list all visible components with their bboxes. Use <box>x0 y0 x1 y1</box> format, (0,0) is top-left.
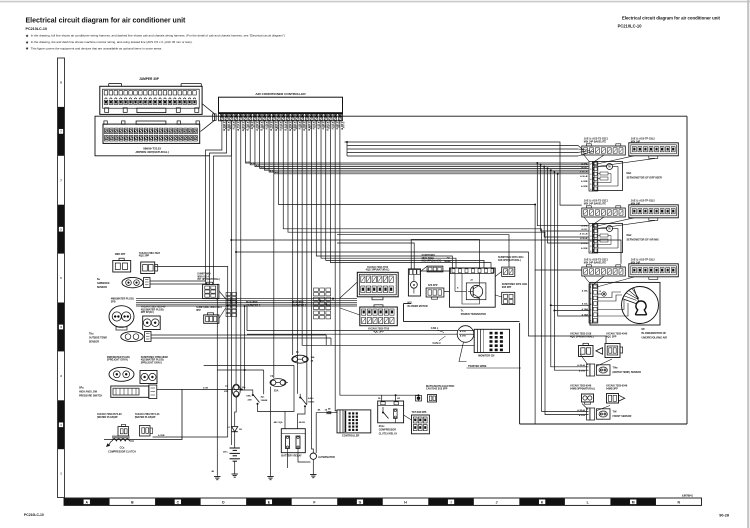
svg-text:3Z3 3PP: 3Z3 3PP <box>428 284 438 287</box>
wire run to 0870-4011 connector <box>337 235 509 267</box>
svg-text:H: H <box>404 501 407 505</box>
svg-text:4MB 3PP: 4MB 3PP <box>115 253 126 256</box>
svg-text:6: 6 <box>590 315 592 317</box>
svg-text:CLUTCH RELAY: CLUTCH RELAY <box>379 432 398 435</box>
svg-text:A 3B: A 3B <box>203 386 208 389</box>
fan unit box <box>590 282 660 325</box>
leader water temp <box>580 354 588 365</box>
wire pressure switch junction vertical <box>244 306 246 390</box>
svg-text:★: ★ <box>25 47 29 51</box>
svg-text:A 3PA: A 3PA <box>581 225 588 228</box>
fuse F1 <box>292 355 309 363</box>
connector 08909-T2133 30P <box>103 121 200 143</box>
module connector B <box>629 143 679 159</box>
wire fuse F2 to diode <box>235 397 237 420</box>
svg-text:F3: F3 <box>271 376 274 378</box>
svg-text:90-28: 90-28 <box>719 514 729 518</box>
fan motor circle <box>622 287 659 324</box>
alternator <box>310 453 316 459</box>
svg-text:G: G <box>359 501 362 505</box>
svg-text:A 3RxB: A 3RxB <box>577 409 585 412</box>
svg-text:SENSOR: SENSOR <box>97 286 107 289</box>
servomotor inner box <box>594 224 623 253</box>
svg-text:3X8 4PP(NATURAL): 3X8 4PP(NATURAL) <box>498 259 521 262</box>
svg-text:COMPRESSOR: COMPRESSOR <box>379 429 397 432</box>
svg-text:18A: 18A <box>311 356 315 359</box>
svg-text:Ma2: Ma2 <box>627 234 632 237</box>
module connector B <box>629 205 679 221</box>
svg-text:SENSOR: SENSOR <box>89 341 99 344</box>
svg-text:HIGH AND LOW: HIGH AND LOW <box>79 391 98 394</box>
servomotor pin block <box>589 224 598 254</box>
servomotor pin block <box>589 162 598 192</box>
svg-text:6: 6 <box>590 189 592 191</box>
svg-text:N: N <box>678 501 681 505</box>
servomotor symbol <box>607 164 613 170</box>
svg-text:A 5TB: A 5TB <box>460 335 466 338</box>
svg-text:4B.3M: 4B.3M <box>299 421 305 424</box>
sumitomo 0870-4021 connector <box>502 292 515 304</box>
svg-text:ALTERNATOR: ALTERNATOR <box>318 456 335 459</box>
svg-text:0.5 3BL: 0.5 3BL <box>248 122 250 130</box>
svg-text:AIR CONDITIONER CONTROLLER: AIR CONDITIONER CONTROLLER <box>255 92 306 96</box>
svg-text:4B: 4B <box>328 408 331 411</box>
wire ambience to clutch junction column <box>155 267 228 438</box>
svg-text:SERVOMOTOR OF DIFFUSER: SERVOMOTOR OF DIFFUSER <box>627 177 663 180</box>
svg-text:B: B <box>131 501 134 505</box>
leader lines connector to pin block <box>584 155 590 162</box>
controller pin strip <box>219 114 343 121</box>
alternator wires <box>305 461 311 463</box>
svg-text:74M4B: 74M4B <box>261 399 268 402</box>
wire run to controller box <box>335 121 337 411</box>
wire left vertical bundle to bottom components <box>216 284 218 475</box>
outside temp sensor connector A <box>109 306 134 330</box>
inline connector on alternator wire <box>327 411 331 414</box>
leader lines inline connectors to junction <box>219 291 226 299</box>
svg-text:A 3AB: A 3AB <box>582 308 589 311</box>
svg-text:HARNESS 1: HARNESS 1 <box>292 305 307 308</box>
leader 4021 <box>495 295 502 297</box>
svg-text:MIX 14P BAKELITE: MIX 14P BAKELITE <box>584 202 607 205</box>
svg-text:F: F <box>313 501 315 505</box>
cab boundary box outline <box>404 116 688 424</box>
svg-text:CAN L: CAN L <box>431 327 439 330</box>
svg-text:2: 2 <box>590 293 592 295</box>
battery relay ground wire <box>287 453 289 468</box>
leader frost <box>582 404 588 410</box>
power transistor symbol <box>455 273 486 304</box>
svg-text:THa: THa <box>89 333 94 336</box>
svg-text:3X8 3PP: 3X8 3PP <box>502 286 512 289</box>
svg-text:J: J <box>496 501 498 505</box>
svg-text:D1: D1 <box>227 427 231 429</box>
svg-text:24M: 24M <box>247 399 251 402</box>
svg-text:PRESSURE SWITCH: PRESSURE SWITCH <box>79 395 103 398</box>
svg-text:(WATER PLGB)3P: (WATER PLGB)3P <box>135 416 156 419</box>
svg-text:78? 3PP(NATURAL): 78? 3PP(NATURAL) <box>197 278 220 281</box>
svg-text:E: E <box>457 288 459 290</box>
wire single runs to sensors <box>279 121 582 270</box>
svg-text:Mf: Mf <box>642 328 645 331</box>
svg-text:0.5 3GL: 0.5 3GL <box>238 122 240 130</box>
svg-text:D: D <box>222 501 225 505</box>
svg-text:04MB 3PP: 04MB 3PP <box>606 387 618 390</box>
servomotor symbol <box>607 226 613 232</box>
svg-text:0.5 3FB: 0.5 3FB <box>262 122 264 130</box>
water temp sensor plug pair <box>579 343 623 357</box>
svg-text:MACHINE: MACHINE <box>292 301 304 304</box>
wire long run y240 to fan connector <box>230 121 232 445</box>
svg-text:4BV 3QA: 4BV 3QA <box>274 421 283 424</box>
svg-text:3PP: 3PP <box>196 309 201 312</box>
fan aux symbols <box>602 292 606 296</box>
svg-text:3PP 3P(4C): 3PP 3P(4C) <box>141 311 154 314</box>
switch S2 <box>299 394 315 410</box>
svg-text:A 3AB: A 3AB <box>582 313 589 316</box>
svg-text:OUTSIDE TEMP.: OUTSIDE TEMP. <box>89 337 108 340</box>
svg-text:0.5 3GR: 0.5 3GR <box>243 122 245 130</box>
ground left column <box>216 475 218 477</box>
TKT connector <box>412 415 430 434</box>
ambience sensor body <box>122 277 150 287</box>
svg-text:A3Bb: A3Bb <box>308 397 314 400</box>
ambience sensor connector B <box>141 262 158 274</box>
svg-text:4B.: 4B. <box>318 409 322 412</box>
air conditioner controller U1 <box>219 97 343 113</box>
svg-text:0.5 3W: 0.5 3W <box>342 122 344 129</box>
svg-text:74M4B: 74M4B <box>444 260 451 263</box>
twisted wire circle <box>457 326 474 343</box>
svg-text:3B: 3B <box>239 429 242 431</box>
pressure switch connector A <box>109 367 134 381</box>
svg-text:BLOWER MOTOR: BLOWER MOTOR <box>408 305 428 308</box>
svg-text:A 3RB: A 3RB <box>581 185 588 188</box>
svg-text:3PB: 3PB <box>111 300 116 303</box>
svg-text:A 3PA: A 3PA <box>581 163 588 166</box>
small connector above TKT <box>416 396 422 402</box>
sumitomo 0870-4011 connector <box>502 267 515 276</box>
svg-text:4: 4 <box>590 303 592 306</box>
matsushita connector <box>428 395 437 403</box>
svg-text:0.5 5TB: 0.5 5TB <box>285 122 287 130</box>
svg-text:FROST SENSOR: FROST SENSOR <box>613 415 632 418</box>
svg-text:0.5 3B: 0.5 3B <box>323 122 325 129</box>
harness inline connector upper <box>203 282 219 298</box>
svg-text:1: 1 <box>590 287 592 289</box>
junction pin cluster left <box>226 293 237 317</box>
svg-text:7: 7 <box>590 321 592 323</box>
svg-text:CONTROLLER: CONTROLLER <box>342 435 360 438</box>
machine connector lower <box>360 305 398 326</box>
svg-text:Electrical circuit diagram for: Electrical circuit diagram for air condi… <box>26 18 187 25</box>
svg-text:COMPRESSOR CLUTCH: COMPRESSOR CLUTCH <box>108 450 136 453</box>
svg-text:MACHINE: MACHINE <box>246 301 258 304</box>
svg-text:A 5TA: A 5TA <box>460 330 466 333</box>
svg-text:(WATER PLGB)3P: (WATER PLGB)3P <box>97 416 118 419</box>
svg-text:4QL: 4QL <box>446 256 451 259</box>
svg-text:PC210LC-10: PC210LC-10 <box>26 27 48 31</box>
svg-text:CAN H: CAN H <box>433 342 441 345</box>
svg-text:4QG 3PP(NATURAL): 4QG 3PP(NATURAL) <box>366 269 390 272</box>
fuse F3 <box>270 379 286 387</box>
battery relay box <box>281 429 305 453</box>
wire verticals to lower right modules <box>536 162 589 370</box>
svg-text:L: L <box>587 501 589 505</box>
svg-text:AMBIENCE: AMBIENCE <box>97 282 110 285</box>
svg-text:1: 1 <box>590 164 592 166</box>
svg-text:5: 5 <box>60 276 62 280</box>
svg-text:BLOWERMOTOR OF: BLOWERMOTOR OF <box>642 332 667 335</box>
wire run to clutch relay <box>340 121 382 401</box>
svg-text:UNE/REVOLVING AIR: UNE/REVOLVING AIR <box>642 336 668 339</box>
svg-text:A 3RB: A 3RB <box>581 180 588 183</box>
svg-text:04MB 3PP(NATURAL): 04MB 3PP(NATURAL) <box>570 387 595 390</box>
water temp pin block <box>587 364 611 376</box>
svg-text:TWISTED WIRE: TWISTED WIRE <box>468 365 487 368</box>
svg-text:E5A: E5A <box>274 389 279 392</box>
svg-text:SERVOMOTOR OF AIR MIX: SERVOMOTOR OF AIR MIX <box>627 239 660 242</box>
fan keyhole symbol <box>636 301 647 315</box>
diode D1 <box>227 420 242 448</box>
leader 4011 <box>495 272 502 277</box>
svg-text:THw: THw <box>613 367 618 370</box>
svg-text:R1xx: R1xx <box>379 425 385 428</box>
svg-text:5B: 5B <box>378 398 381 400</box>
module connector A <box>582 206 626 217</box>
svg-text:3ZB: 3ZB <box>224 391 229 393</box>
svg-text:4: 4 <box>590 240 592 243</box>
svg-text:★: ★ <box>25 34 29 38</box>
svg-text:Tr.: Tr. <box>461 309 464 312</box>
svg-text:F2: F2 <box>225 386 228 388</box>
svg-text:3X3 3PP(BLACK): 3X3 3PP(BLACK) <box>422 260 442 263</box>
outside temp sensor connector B <box>143 316 161 330</box>
compressor clutch connector A <box>118 427 129 437</box>
svg-text:CAV/7042 3X3 3PP: CAV/7042 3X3 3PP <box>426 388 448 391</box>
svg-text:0.5 5E: 0.5 5E <box>252 122 254 129</box>
svg-text:0.5 3RB: 0.5 3RB <box>295 122 297 130</box>
wires blower to transistor <box>421 270 450 272</box>
svg-text:4QG 3PP: 4QG 3PP <box>606 335 617 338</box>
wire drop to switch S1 <box>241 121 253 392</box>
module connector A <box>582 144 626 155</box>
svg-text:Ma1: Ma1 <box>627 172 632 175</box>
wire drops center going down <box>273 121 275 378</box>
pressure switch body <box>111 385 157 399</box>
outside temp wires <box>151 334 326 336</box>
leader relay to TKT connector <box>404 415 412 420</box>
module connector A <box>582 265 626 276</box>
svg-text:M: M <box>632 501 635 505</box>
svg-text:B: B <box>600 291 602 293</box>
blower motor unit <box>408 269 420 296</box>
module connector B <box>629 264 679 280</box>
controller pin wire labels <box>222 122 344 132</box>
svg-text:0.5 3PB: 0.5 3PB <box>309 122 311 130</box>
svg-text:M: M <box>609 228 611 231</box>
svg-text:BATTERY RELAY: BATTERY RELAY <box>281 455 302 458</box>
svg-text:1: 1 <box>60 472 62 476</box>
controller box <box>337 410 371 433</box>
twisted wire leader <box>459 342 467 362</box>
svg-text:+B: +B <box>470 280 473 282</box>
svg-text:75A4b: 75A4b <box>308 401 315 404</box>
wire upper bus to module 1 connector <box>345 142 582 205</box>
cab harness boundary line <box>210 115 687 117</box>
svg-text:In the drawing, dot and dash l: In the drawing, dot and dash line shows … <box>31 40 193 44</box>
frost sensor plug pair <box>582 394 625 405</box>
svg-text:A 3RB: A 3RB <box>581 247 588 250</box>
machine connector upper <box>357 272 398 300</box>
svg-text:3: 3 <box>590 174 592 176</box>
leader junction to machine connectors <box>340 282 357 298</box>
svg-text:A 3RB: A 3RB <box>581 242 588 245</box>
svg-text:A 3RxB: A 3RxB <box>577 364 585 367</box>
svg-text:JUMPER 30P: JUMPER 30P <box>139 77 160 81</box>
machine harness wire bundle <box>136 298 357 306</box>
svg-text:8: 8 <box>60 81 62 85</box>
fuse F2 <box>232 384 240 397</box>
left border ruler <box>58 58 65 498</box>
frost pin block <box>587 408 611 420</box>
svg-text:2: 2 <box>590 231 592 233</box>
svg-text:2: 2 <box>590 169 592 171</box>
svg-text:CCa: CCa <box>120 447 125 450</box>
compressor clutch box <box>104 389 182 440</box>
svg-text:A 3PA: A 3PA <box>579 369 586 372</box>
svg-text:3: 3 <box>60 374 62 378</box>
svg-text:0.5 5B: 0.5 5B <box>299 122 301 129</box>
pressure switch connector B <box>140 371 157 384</box>
harness inline connector lower <box>204 313 219 324</box>
svg-text:A 65C: A 65C <box>581 228 588 231</box>
wire bus bundle controller to servo modules <box>246 121 589 174</box>
compressor clutch connector B <box>140 426 151 437</box>
svg-text:0.5 5D: 0.5 5D <box>266 122 268 129</box>
ground under battery <box>232 473 238 475</box>
wire fuse F3 drop <box>270 387 272 475</box>
switch S1 <box>246 391 267 407</box>
wire runs to blower motor connector <box>411 240 479 269</box>
svg-text:18M+: 18M+ <box>246 396 252 398</box>
svg-text:M?L: M?L <box>408 301 413 304</box>
svg-text:4B: 4B <box>211 470 214 473</box>
svg-text:POWER TRANSISTOR: POWER TRANSISTOR <box>461 313 486 316</box>
svg-text:HARNESS 2: HARNESS 2 <box>246 305 261 308</box>
svg-text:5: 5 <box>590 309 592 311</box>
svg-text:4QL: 4QL <box>261 396 266 399</box>
svg-text:I: I <box>451 501 452 505</box>
servomotor inner box <box>594 162 623 191</box>
svg-text:Sa: Sa <box>97 278 101 281</box>
svg-text:MIX 14P BAKELITE: MIX 14P BAKELITE <box>584 261 607 264</box>
svg-text:1: 1 <box>590 226 592 228</box>
ground under fuse F3 column <box>270 475 272 477</box>
svg-text:4: 4 <box>590 178 592 181</box>
controller left connector wedge <box>201 104 215 132</box>
outside temp sensor body <box>121 332 151 342</box>
battery <box>223 448 240 474</box>
fan intake sector hatched <box>623 288 640 305</box>
svg-text:9JM78941: 9JM78941 <box>682 494 694 497</box>
svg-text:A 3G+B: A 3G+B <box>580 171 588 174</box>
svg-text:(WATER TEMP.) SENSOR: (WATER TEMP.) SENSOR <box>613 371 642 374</box>
svg-text:★: ★ <box>25 40 29 44</box>
svg-text:M: M <box>609 166 611 169</box>
svg-text:6: 6 <box>590 251 592 253</box>
svg-text:A 3AL: A 3AL <box>582 303 589 306</box>
compressor clutch coil <box>106 436 134 447</box>
svg-text:MIX 14P BAKELITE: MIX 14P BAKELITE <box>584 140 607 143</box>
svg-text:4QG 3PP: 4QG 3PP <box>373 330 384 333</box>
svg-text:THf: THf <box>613 411 617 414</box>
wire fuse F2 feed <box>235 252 237 384</box>
svg-text:TKT.3X8 6PB: TKT.3X8 6PB <box>412 411 427 414</box>
svg-text:0.5 5C: 0.5 5C <box>233 122 235 129</box>
wire switches to battery relay <box>258 408 286 429</box>
svg-text:In the drawing, full line show: In the drawing, full line shows air cond… <box>31 34 285 38</box>
svg-text:A 3G+B: A 3G+B <box>580 233 588 236</box>
pressure switch wires <box>157 389 242 391</box>
3Z3 connector <box>426 288 444 299</box>
svg-text:5: 5 <box>590 246 592 248</box>
svg-text:SPa: SPa <box>79 387 84 390</box>
svg-text:0.5 3BB: 0.5 3BB <box>229 122 231 130</box>
svg-text:Electrical circuit diagram for: Electrical circuit diagram for air condi… <box>622 16 721 21</box>
svg-text:3: 3 <box>590 298 592 300</box>
compressor clutch relay box <box>378 401 404 423</box>
svg-text:4QG 3PP(NATURAL): 4QG 3PP(NATURAL) <box>570 335 594 338</box>
svg-text:This figure covers the equipme: This figure covers the equipment and dev… <box>31 46 162 50</box>
wire CAN lines <box>247 330 458 332</box>
junction pin cluster right <box>314 288 331 319</box>
svg-text:JRPRIN 30P(NATURAL): JRPRIN 30P(NATURAL) <box>135 150 168 154</box>
svg-text:48V+: 48V+ <box>223 451 229 454</box>
connector JUMPER 30P <box>100 84 202 115</box>
ambience wires <box>150 280 206 282</box>
sumitomo 0800-73C3 connector <box>427 266 443 272</box>
svg-text:PC210LC-10: PC210LC-10 <box>618 24 643 29</box>
svg-text:10A: 10A <box>242 386 246 389</box>
svg-text:PC210LC-10: PC210LC-10 <box>24 513 44 517</box>
svg-text:A 3PA: A 3PA <box>579 414 586 417</box>
bottom border ruler <box>64 498 702 505</box>
svg-text:7: 7 <box>60 178 62 182</box>
leader lines connector to pin block <box>584 217 590 224</box>
monitor wires <box>459 337 474 339</box>
wire runs to power transistor <box>316 121 452 268</box>
harness partial box lines bottom left <box>217 369 263 371</box>
svg-text:A 36+B: A 36+B <box>580 237 588 240</box>
ambience sensor connector A <box>113 258 131 272</box>
leader 73C3 <box>421 266 428 271</box>
svg-text:3PP(LIGHT GRAY): 3PP(LIGHT GRAY) <box>141 361 162 364</box>
svg-text:A 3BL: A 3BL <box>582 290 589 293</box>
svg-text:5: 5 <box>590 184 592 186</box>
svg-text:A 36+B: A 36+B <box>580 175 588 178</box>
svg-text:M: M <box>413 283 415 287</box>
ground under alternator <box>310 474 316 476</box>
svg-text:MONITOR CN: MONITOR CN <box>478 355 494 358</box>
svg-text:3A: 3A <box>311 359 314 362</box>
wire long run y252 to water temp connector <box>235 121 237 384</box>
page edge scan lines <box>0 1 750 3</box>
svg-text:4QG 3PP: 4QG 3PP <box>139 255 150 258</box>
fan pin strip <box>589 284 598 323</box>
wire run module2 feed long <box>534 270 536 424</box>
monitor connector block <box>474 329 509 352</box>
